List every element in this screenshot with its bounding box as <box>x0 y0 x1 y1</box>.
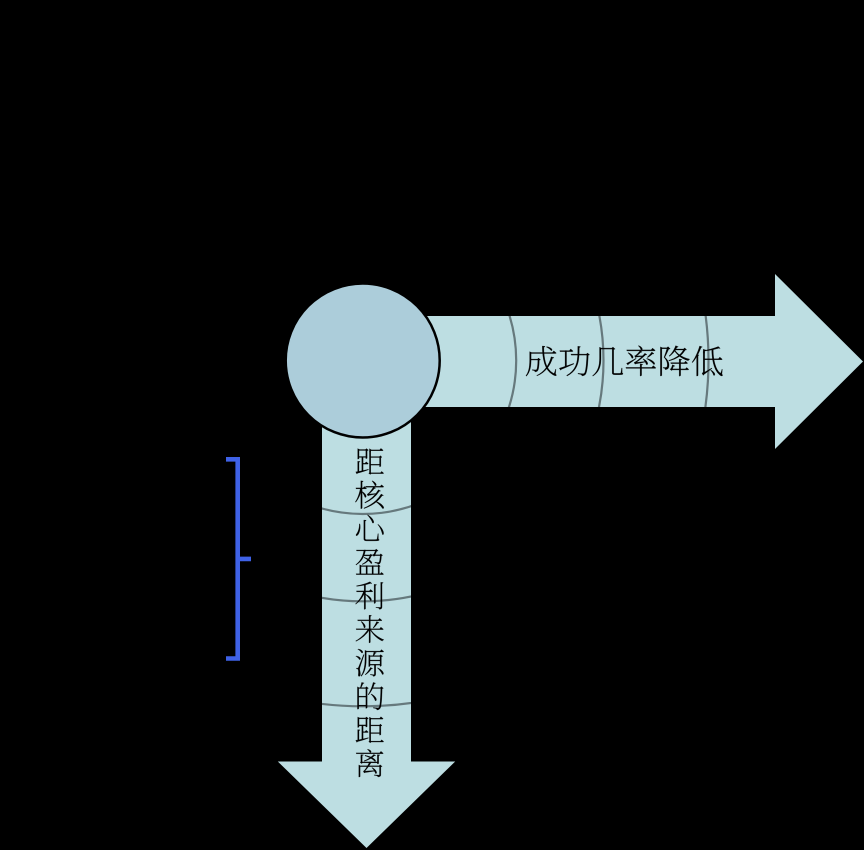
char 利 (v4) <box>355 582 383 610</box>
char 源 (v6) <box>356 649 384 676</box>
right arrow (success probability) <box>363 274 863 449</box>
label: 成功几率降低 <box>526 346 723 377</box>
char 的 (v7) <box>357 682 383 710</box>
blue brace <box>226 459 251 658</box>
down arrow (distance from core profit) <box>278 360 455 848</box>
char 盈 (v3) <box>356 549 384 575</box>
char 核 (v1) <box>355 481 383 509</box>
char 来 (v5) <box>356 615 384 643</box>
char 距 (v0) <box>356 448 384 474</box>
label: 距核心盈利来源的距离 (vertical) <box>355 448 383 777</box>
char 低 (h5) <box>692 346 723 376</box>
char 成 (h0) <box>526 346 557 376</box>
char 距 (v8) <box>356 717 384 743</box>
distance divider arcs <box>17 15 709 707</box>
char 降 (h4) <box>660 346 689 376</box>
char 功 (h1) <box>559 346 589 376</box>
char 率 (h3) <box>626 346 656 376</box>
char 离 (v9) <box>356 749 383 777</box>
central circle <box>286 284 440 438</box>
char 心 (v2) <box>356 515 384 541</box>
char 几 (h2) <box>592 347 623 376</box>
